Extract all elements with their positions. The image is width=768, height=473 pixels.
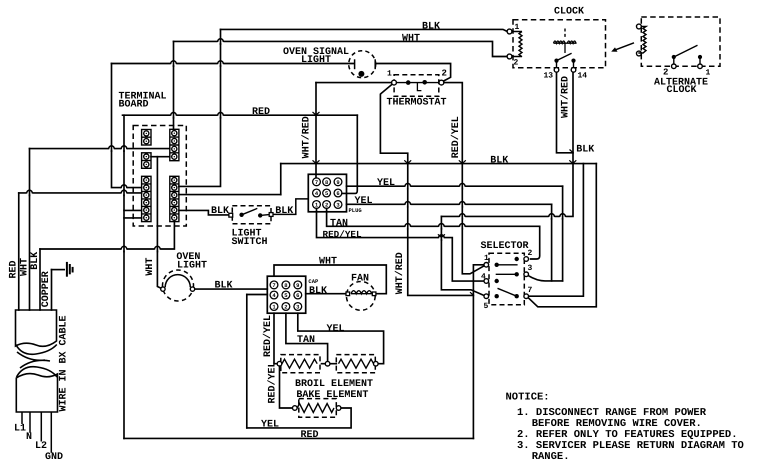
terminal board right column group1 — [170, 129, 179, 160]
wire RED branch to left sq6 — [124, 217, 142, 219]
svg-text:L2: L2 — [35, 441, 47, 452]
wire plug 6 to YEL1 link — [342, 186, 357, 193]
wire TAN cap to broil mid — [286, 313, 328, 361]
svg-text:1: 1 — [515, 23, 520, 32]
wire YEL2 drop — [551, 204, 553, 281]
wire cable RED to left sq3 — [19, 192, 142, 194]
svg-text:YEL: YEL — [327, 324, 345, 335]
svg-text:RED/YEL: RED/YEL — [267, 361, 279, 403]
wire WHT drop to oven light — [157, 157, 163, 289]
clock coil — [512, 32, 522, 57]
wire WHT/RED vertical to plug — [315, 83, 317, 178]
light switch — [232, 206, 271, 224]
wire BLK mid run — [281, 163, 597, 165]
wire terminal board left sq2 — [112, 64, 142, 188]
wire YEL cap to broil right — [298, 313, 384, 364]
wire YEL1 drop to selector 3 — [562, 186, 564, 281]
wire oven signal light feed — [112, 63, 354, 65]
svg-text:4: 4 — [481, 273, 486, 282]
svg-text:FAN: FAN — [351, 274, 369, 285]
svg-text:WHT: WHT — [402, 34, 420, 45]
arrow to alternate clock — [614, 43, 635, 51]
wire RED/YEL plug run to selector 4 — [317, 209, 484, 282]
wire thermostat 1 drop — [380, 85, 407, 238]
svg-text:1: 1 — [706, 69, 711, 78]
wire crossing hops — [27, 39, 566, 251]
wire broil links — [322, 363, 337, 365]
svg-text:GND: GND — [45, 452, 63, 463]
wire YEL bottom run — [247, 408, 351, 428]
svg-text:RED: RED — [252, 107, 270, 118]
wire BLK corner drop to selector 7 diagonal — [528, 164, 596, 307]
svg-text:SWITCH: SWITCH — [232, 237, 268, 248]
wire RED/YEL from thermostat 2 — [444, 83, 485, 274]
svg-text:WHT: WHT — [19, 258, 30, 276]
svg-text:RED: RED — [301, 430, 319, 441]
svg-text:WHT/RED: WHT/RED — [394, 252, 406, 294]
svg-text:YEL: YEL — [377, 178, 395, 189]
svg-text:BLK: BLK — [30, 252, 41, 270]
svg-text:7: 7 — [528, 286, 533, 295]
cap block — [267, 276, 305, 313]
wire YEL1 run — [347, 185, 563, 187]
clock motor — [564, 29, 566, 38]
svg-text:2: 2 — [528, 249, 533, 258]
svg-text:RED/YEL: RED/YEL — [450, 116, 462, 158]
svg-text:RED: RED — [9, 260, 20, 278]
svg-text:7: 7 — [272, 282, 275, 289]
wire COPPER to ground — [52, 269, 65, 271]
svg-text:WHT/RED: WHT/RED — [559, 76, 571, 118]
svg-text:BLK: BLK — [275, 206, 293, 217]
svg-text:5: 5 — [484, 302, 489, 311]
svg-text:CLOCK: CLOCK — [667, 85, 697, 96]
wire right sq5 to light switch — [179, 210, 229, 215]
svg-text:2: 2 — [514, 59, 519, 68]
svg-text:WHT/RED: WHT/RED — [301, 116, 313, 158]
wire selector TL to RED loop — [473, 265, 484, 439]
svg-text:BLK: BLK — [309, 286, 327, 297]
wire cable BLK run to right sq6 — [40, 222, 174, 249]
broil element — [281, 355, 320, 373]
wire fan WHT loop — [274, 265, 386, 294]
wire BLK drop to selector 7 — [529, 164, 584, 297]
terminal board left column group2 — [142, 153, 151, 169]
svg-text:13: 13 — [544, 72, 554, 81]
wire clock 13 drop — [557, 72, 574, 153]
svg-text:9: 9 — [336, 179, 339, 186]
svg-text:1: 1 — [387, 70, 392, 79]
svg-text:14: 14 — [578, 72, 588, 81]
svg-text:THERMOSTAT: THERMOSTAT — [387, 97, 447, 108]
svg-text:3: 3 — [528, 264, 533, 273]
wire cable BLK vertical — [39, 249, 41, 310]
wire WHT line drop to right sq1 — [173, 41, 175, 129]
svg-text:TAN: TAN — [297, 335, 315, 346]
wire RED top run — [123, 114, 358, 116]
wire oven signal light to thermostat 2 — [376, 64, 450, 82]
BX cable assembly — [16, 310, 58, 412]
svg-text:COPPER: COPPER — [41, 271, 52, 307]
wire clock 14 drop to selector run — [441, 72, 573, 216]
clock — [513, 20, 606, 68]
svg-text:7: 7 — [315, 179, 318, 186]
svg-text:PLUG: PLUG — [349, 207, 363, 214]
wire bottom RED loop — [124, 437, 473, 439]
svg-text:BAKE ELEMENT: BAKE ELEMENT — [296, 390, 368, 401]
svg-text:YEL: YEL — [355, 196, 373, 207]
svg-text:BLK: BLK — [576, 144, 594, 155]
wire RED/YEL broil to bake — [280, 366, 293, 408]
svg-text:L1: L1 — [14, 423, 26, 434]
wire oven light BLK to cap block — [195, 288, 267, 290]
wire thermostat 1 to WHT/RED vertical — [316, 82, 392, 84]
svg-text:N: N — [26, 432, 32, 443]
svg-text:RED/YEL: RED/YEL — [262, 315, 274, 357]
wire cap BLK to fan — [306, 293, 346, 295]
svg-text:WIRE IN BX CABLE: WIRE IN BX CABLE — [58, 315, 69, 411]
svg-text:BLK: BLK — [215, 281, 233, 292]
wire BLK mid left riser — [280, 164, 282, 195]
svg-text:2: 2 — [663, 68, 668, 78]
wire WHT top run to clock terminal 2 — [174, 41, 508, 56]
wire right sq3 to BLK mid riser — [179, 194, 281, 196]
svg-text:NOTICE:: NOTICE: — [506, 392, 550, 404]
wire YEL long drop — [247, 294, 267, 296]
wire RED branch down to BLK and YEL — [356, 115, 358, 186]
thermostat U1 — [394, 75, 439, 97]
wire selector 5 riser — [441, 216, 484, 295]
notice block — [506, 392, 744, 464]
bake element — [299, 399, 337, 418]
wire WHT/RED selector run — [408, 238, 474, 296]
terminal board left column group1 — [142, 130, 151, 146]
svg-text:WHT: WHT — [145, 258, 156, 276]
svg-text:CAP: CAP — [308, 278, 319, 285]
wire BLK top run to clock terminal 1 — [221, 29, 508, 31]
svg-text:6: 6 — [296, 292, 299, 299]
cable leads — [22, 412, 51, 453]
wire RED left vertical to bottom loop — [123, 115, 125, 438]
ground symbol — [67, 262, 73, 277]
svg-text:1: 1 — [484, 254, 489, 263]
terminal board dashed box — [133, 126, 186, 227]
svg-text:BLK: BLK — [422, 22, 440, 33]
oven signal light — [349, 51, 376, 78]
wire COPPER vertical — [51, 270, 53, 310]
svg-text:9: 9 — [296, 282, 299, 289]
wire junction flares — [313, 112, 577, 295]
terminal board left column group3 — [142, 176, 151, 221]
svg-text:2: 2 — [284, 304, 287, 311]
svg-text:WHT: WHT — [319, 257, 337, 268]
wire RED/YEL cap to broil — [274, 313, 277, 364]
wire cable WHT riser to right sq3 — [30, 148, 170, 150]
plug block — [308, 174, 346, 212]
svg-text:YEL: YEL — [261, 419, 279, 430]
clock switch — [554, 59, 558, 63]
svg-text:BOARD: BOARD — [119, 100, 149, 111]
terminal board right column group2 — [170, 176, 179, 221]
svg-text:6: 6 — [336, 190, 339, 197]
wire verticals continuity at hops — [30, 38, 563, 252]
svg-text:LIGHT: LIGHT — [177, 260, 207, 271]
svg-text:TAN: TAN — [330, 219, 348, 230]
svg-text:2: 2 — [325, 202, 328, 209]
svg-text:CLOCK: CLOCK — [554, 7, 584, 18]
selector switch — [489, 253, 524, 304]
wire selector 3 curve — [528, 276, 562, 281]
wire RED branch to left sq5 — [124, 209, 142, 211]
wire board cross link — [151, 156, 170, 158]
wire cable WHT vertical — [29, 149, 31, 310]
svg-text:RANGE.: RANGE. — [532, 451, 570, 463]
fan motor — [346, 282, 375, 311]
svg-text:2: 2 — [442, 69, 447, 79]
svg-text:BROIL ELEMENT: BROIL ELEMENT — [295, 379, 373, 390]
wire TAN run to selector 2 — [327, 209, 540, 259]
alternate clock — [641, 17, 720, 66]
svg-text:RED/YEL: RED/YEL — [323, 229, 362, 240]
wire cable RED vertical — [18, 193, 20, 310]
svg-text:LIGHT: LIGHT — [301, 55, 331, 66]
svg-text:BLK: BLK — [490, 156, 508, 167]
svg-text:SELECTOR: SELECTOR — [481, 241, 529, 252]
svg-text:BLK: BLK — [211, 206, 229, 217]
wire YEL2 run — [347, 203, 552, 205]
oven light — [163, 270, 194, 301]
wire BLK line drop to right sq2 — [179, 29, 221, 186]
